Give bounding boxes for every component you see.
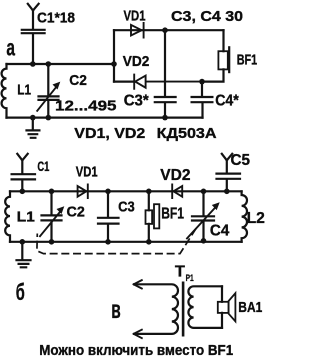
svg-text:C3: C3 bbox=[118, 199, 135, 216]
diode VD1 bbox=[131, 23, 144, 38]
capacitor C2 variable bbox=[37, 64, 60, 118]
svg-text:L2: L2 bbox=[247, 210, 265, 227]
wire to BF1 bbox=[202, 69, 224, 81]
svg-text:VD1: VD1 bbox=[76, 163, 98, 180]
transformer T secondary bbox=[188, 286, 222, 328]
capacitor C3 bbox=[155, 30, 176, 117]
svg-text:Р1: Р1 bbox=[186, 273, 195, 284]
svg-text:C5: C5 bbox=[231, 152, 251, 169]
capacitor C4 b variable bbox=[187, 189, 220, 244]
diode VD1 b bbox=[78, 184, 88, 198]
node C1 b bbox=[20, 189, 26, 195]
svg-text:Можно включить вместо BF1: Можно включить вместо BF1 bbox=[39, 343, 233, 359]
capacitor C1 b bbox=[12, 174, 35, 191]
svg-text:BF1: BF1 bbox=[237, 52, 258, 69]
piezo BF1 b bbox=[146, 189, 160, 245]
inductor L1 bbox=[2, 64, 7, 118]
svg-text:КД503А: КД503А bbox=[157, 125, 217, 142]
antenna b left bbox=[17, 154, 27, 174]
svg-text:C4: C4 bbox=[210, 223, 229, 240]
svg-text:б: б bbox=[16, 279, 25, 305]
svg-text:VD1: VD1 bbox=[124, 7, 146, 24]
svg-text:C1: C1 bbox=[37, 158, 49, 174]
svg-text:C3, C4 30: C3, C4 30 bbox=[171, 8, 243, 25]
svg-text:C1*18: C1*18 bbox=[37, 10, 75, 27]
node C3 top bbox=[162, 27, 168, 33]
antenna b right bbox=[222, 154, 232, 173]
piezo BF1 bbox=[218, 30, 229, 72]
ground bbox=[27, 118, 40, 138]
node ground b bbox=[20, 239, 26, 245]
svg-text:BF1: BF1 bbox=[161, 206, 184, 223]
capacitor C4 bbox=[192, 82, 213, 118]
svg-text:VD2: VD2 bbox=[160, 167, 190, 184]
node tank to detector bbox=[111, 61, 117, 67]
wire top b bbox=[10, 190, 242, 192]
wire left branch vertical bbox=[113, 30, 115, 81]
wire top a bbox=[114, 29, 224, 31]
transformer core bbox=[182, 282, 185, 337]
svg-text:BA1: BA1 bbox=[238, 299, 262, 316]
wire tank top bbox=[7, 63, 115, 65]
speaker BA1 bbox=[218, 286, 236, 328]
svg-text:C3*: C3* bbox=[124, 93, 150, 110]
ground b bbox=[17, 242, 31, 267]
node C4 top bbox=[199, 79, 205, 85]
svg-text:L1: L1 bbox=[17, 208, 35, 225]
wire bottom a bbox=[7, 116, 203, 118]
svg-text:12...495: 12...495 bbox=[55, 98, 117, 115]
inductor L2 bbox=[242, 191, 247, 242]
node ground tap bbox=[30, 115, 36, 121]
capacitor C2 b variable bbox=[40, 189, 64, 245]
capacitor C5 bbox=[217, 174, 241, 195]
diode VD2 bbox=[114, 75, 202, 89]
capacitor C1 bbox=[22, 30, 45, 64]
svg-text:в: в bbox=[111, 296, 121, 324]
svg-text:C4*: C4* bbox=[215, 93, 239, 110]
wire bottom b bbox=[10, 241, 242, 243]
antenna WA1 bbox=[28, 4, 39, 29]
capacitor C3 b bbox=[98, 189, 119, 245]
transformer T primary bbox=[134, 280, 178, 338]
svg-text:а: а bbox=[6, 34, 15, 60]
svg-text:C2: C2 bbox=[69, 72, 87, 89]
node C3 bottom bbox=[162, 115, 168, 121]
svg-text:L1: L1 bbox=[17, 81, 31, 98]
dashed gang link C2-C4 bbox=[37, 227, 197, 254]
svg-text:C2: C2 bbox=[67, 204, 85, 221]
node C2 bottom bbox=[46, 115, 52, 121]
diode VD2 b bbox=[172, 184, 182, 198]
svg-text:Т: Т bbox=[175, 263, 186, 280]
svg-text:VD1, VD2: VD1, VD2 bbox=[74, 125, 145, 142]
node antenna junction bbox=[30, 61, 36, 67]
node C2 top junction bbox=[46, 61, 52, 67]
inductor L1 b bbox=[5, 191, 10, 242]
svg-text:VD2: VD2 bbox=[123, 53, 150, 70]
